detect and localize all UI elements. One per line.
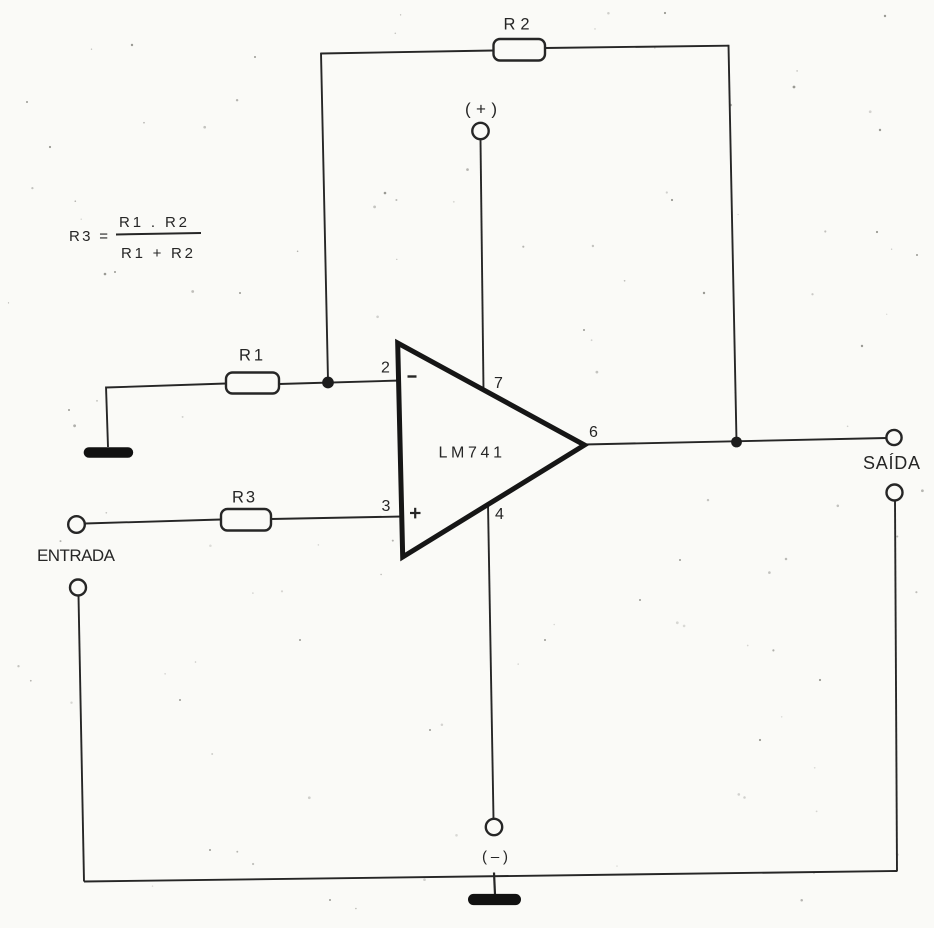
terminal entrada upper (68, 516, 85, 533)
formula R3 = R1.R2/(R1+R2) (69, 214, 201, 262)
svg-text:2: 2 (381, 360, 390, 377)
svg-text:4: 4 (495, 506, 504, 523)
wire output (pin 6 to saida) (584, 438, 887, 445)
svg-text:7: 7 (494, 375, 503, 392)
terminal saida output (886, 430, 901, 445)
svg-text:R 3: R 3 (232, 489, 255, 507)
svg-text:( + ): ( + ) (465, 100, 497, 119)
svg-text:3: 3 (382, 498, 391, 515)
wire bottom horizontal (84, 871, 897, 882)
junction node at inverting input (322, 377, 334, 389)
resistor R3 (221, 509, 271, 531)
svg-text:SAÍDA: SAÍDA (863, 453, 920, 473)
wire top-right horizontal (R2 to right corner) (545, 46, 729, 48)
junction node at output (731, 437, 742, 448)
wire left of R1 (106, 384, 226, 388)
svg-text:R 1: R 1 (239, 347, 263, 365)
wire pin 4 vertical (488, 504, 494, 819)
non-inverting input plus sign (410, 512, 421, 514)
wire R3 to pin 3 (271, 517, 402, 520)
terminal entrada lower (70, 580, 86, 596)
ground (bottom) (468, 894, 521, 905)
wire left feedback vertical (321, 53, 328, 380)
wire entrada down left side (79, 596, 85, 882)
svg-text:6: 6 (589, 424, 598, 441)
inverting input minus sign (408, 375, 417, 377)
ground (left) (84, 447, 134, 458)
terminal (+) (472, 123, 488, 139)
resistor R1 (226, 373, 279, 394)
svg-text:ENTRADA: ENTRADA (37, 546, 116, 565)
wire R1 to pin 2 (279, 381, 400, 385)
terminal (-) (486, 819, 502, 835)
wire entrada to R3 (85, 520, 221, 524)
svg-text:R3 =: R3 = (69, 228, 108, 245)
wire stub to bottom ground (494, 873, 495, 895)
svg-text:( – ): ( – ) (482, 849, 508, 866)
wire pin 7 vertical (481, 140, 484, 391)
wire right feedback vertical (729, 45, 737, 441)
wire right vertical (saida down) (895, 501, 897, 872)
svg-text:R 2: R 2 (504, 16, 530, 34)
terminal saida lower (887, 485, 903, 501)
wire top-left horizontal (pin2 node to R2) (321, 51, 494, 54)
op-amp U1 body (398, 343, 585, 557)
wire stub to left ground (106, 387, 108, 448)
resistor R2 (494, 39, 546, 61)
